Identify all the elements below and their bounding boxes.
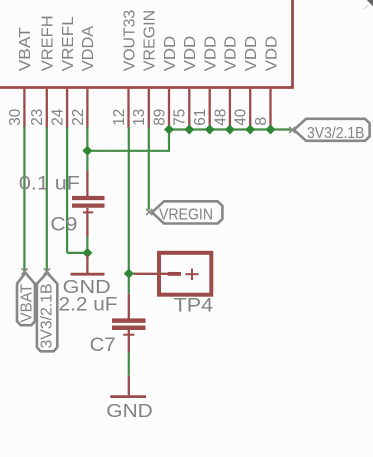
pin VREFL 24 — [50, 16, 77, 128]
junction bus pin 8 — [266, 125, 276, 135]
svg-text:VDD: VDD — [223, 36, 240, 72]
net end cross VREGIN — [146, 209, 152, 215]
junction node A (87.4,150.8) — [82, 146, 92, 156]
net end cross 3V3/2.1B — [289, 127, 295, 133]
wire node B to TP4 — [129, 273, 135, 275]
pin VOUT33 12 — [111, 10, 138, 128]
junction C9 bottom node (87.4,252.9) — [82, 248, 92, 258]
svg-text:3V3/2.1B: 3V3/2.1B — [39, 284, 56, 349]
junction bus pin 89 — [164, 125, 174, 135]
IC U1 body outline — [0, 0, 293, 88]
svg-text:13: 13 — [131, 109, 148, 126]
svg-text:8: 8 — [253, 117, 270, 126]
pin VDD 8 — [253, 36, 280, 128]
svg-text:75: 75 — [172, 109, 189, 126]
svg-text:C7: C7 — [90, 335, 116, 356]
svg-text:GND: GND — [106, 400, 153, 421]
junction bus pin 48 — [225, 125, 235, 135]
pin VDD 40 — [233, 36, 260, 128]
svg-text:VDD: VDD — [263, 36, 280, 72]
wire VREGIN vertical — [148, 127, 150, 210]
wire C7 bottom green segment — [128, 353, 130, 376]
pin VREFH 23 — [29, 15, 56, 128]
pin VDDA 22 — [70, 25, 97, 128]
svg-text:VREGIN: VREGIN — [159, 206, 213, 223]
svg-text:VREFH: VREFH — [40, 15, 57, 71]
svg-text:VREFL: VREFL — [60, 16, 77, 71]
svg-text:VDD: VDD — [182, 36, 199, 72]
pin VDD 89 — [151, 36, 178, 128]
svg-text:24: 24 — [50, 109, 67, 126]
wire VREFL horizontal to C9 bottom node — [67, 252, 87, 254]
svg-text:VDD: VDD — [203, 36, 220, 72]
wire VREFL vertical — [66, 127, 68, 253]
svg-text:C9: C9 — [50, 215, 77, 236]
net label VREGIN — [152, 201, 222, 223]
pin VDD 61 — [192, 36, 219, 128]
junction bus pin 61 — [205, 125, 215, 135]
net end cross VBAT — [22, 268, 28, 274]
net label 3V3/2.1B (vertical) — [37, 273, 57, 352]
wire VOUT33 vertical — [128, 127, 130, 294]
wire VBAT net vertical — [23, 127, 25, 271]
net end cross 3V3/2.1B vertical — [44, 268, 50, 274]
svg-text:VBAT: VBAT — [17, 27, 34, 71]
ground symbol GND (C9) — [71, 255, 105, 274]
svg-text:VDD: VDD — [162, 36, 179, 72]
svg-text:3V3/2.1B: 3V3/2.1B — [307, 125, 365, 142]
junction node B (128.8,273.6) — [124, 269, 134, 279]
svg-text:0.1 uF: 0.1 uF — [19, 173, 80, 194]
wire 3V3/2.1B bus horizontal — [169, 128, 292, 130]
junction bus pin 40 — [245, 125, 255, 135]
svg-text:VOUT33: VOUT33 — [121, 10, 138, 72]
svg-text:48: 48 — [212, 109, 229, 126]
wire bus drop to node A — [87, 130, 169, 151]
svg-text:23: 23 — [29, 109, 46, 126]
pin VBAT 30 — [7, 27, 34, 128]
net label 3V3/2.1B (right) — [294, 119, 370, 142]
svg-text:89: 89 — [151, 109, 168, 126]
svg-text:VDD: VDD — [243, 36, 260, 72]
pin VREGIN 13 — [131, 10, 158, 128]
wire VREFH to 3V3/2.1B vertical — [46, 127, 48, 271]
capacitor C7 — [112, 294, 146, 353]
svg-text:VREGIN: VREGIN — [142, 10, 159, 72]
capacitor C9 — [72, 171, 105, 237]
cursor mark top right — [367, 0, 373, 6]
svg-text:VBAT: VBAT — [19, 283, 36, 322]
svg-text:TP4: TP4 — [174, 295, 214, 316]
pin VDD 48 — [212, 36, 239, 128]
svg-text:VDDA: VDDA — [80, 25, 97, 71]
wire VDDA stub to node A — [86, 127, 88, 171]
svg-text:30: 30 — [7, 109, 24, 126]
svg-text:61: 61 — [192, 109, 209, 126]
svg-text:2.2 uF: 2.2 uF — [59, 295, 118, 316]
wire C9 bottom green segment — [86, 236, 88, 250]
svg-text:12: 12 — [111, 109, 128, 126]
net label VBAT (vertical) — [17, 273, 36, 325]
pin VDD 75 — [172, 36, 199, 128]
test point TP4 — [135, 253, 212, 295]
ground symbol GND (C7) — [110, 376, 146, 397]
svg-text:40: 40 — [233, 109, 250, 126]
junction bus pin 75 — [184, 125, 194, 135]
svg-text:22: 22 — [70, 109, 87, 126]
